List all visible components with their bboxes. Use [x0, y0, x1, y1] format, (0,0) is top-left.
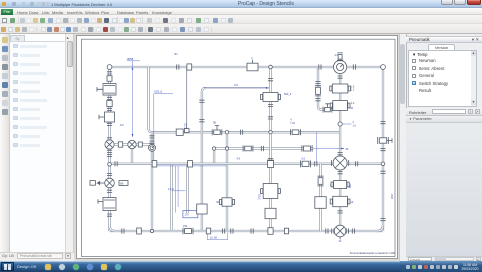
flange F7 [106, 190, 111, 192]
valve K17 [318, 178, 323, 185]
note line 3.0 [204, 87, 268, 89]
flange F16 [267, 79, 272, 81]
svg-text:10 1/8: 10 1/8 [210, 237, 218, 240]
flange F28 [380, 171, 385, 173]
valve K14 [324, 107, 330, 111]
svg-text:5.6: 5.6 [301, 158, 305, 161]
tee ball T5 [225, 147, 228, 150]
svg-text:+B: +B [350, 107, 353, 110]
tee T8 [150, 229, 153, 232]
valve K3 [247, 63, 258, 71]
valve K15 [196, 204, 206, 214]
valve K16 [222, 198, 232, 206]
union U6 [152, 161, 157, 167]
flange F19 [337, 76, 342, 78]
svg-text:2702: 2702 [258, 193, 261, 199]
union U11 [284, 228, 288, 234]
valve K8 [302, 161, 309, 166]
flange F4 [106, 123, 111, 125]
valve K2 handle [99, 115, 105, 119]
pipe riser V13 with elbow [318, 67, 333, 110]
flange F24 [315, 99, 320, 101]
tee ball T6 [268, 131, 271, 134]
flange F34 [352, 228, 354, 233]
vent K12 [338, 55, 342, 60]
svg-text:2007: 2007 [391, 193, 394, 199]
valve K4 [213, 130, 219, 134]
svg-text:4.6: 4.6 [351, 102, 355, 105]
pipe middle header H3 [152, 131, 340, 133]
tee fitting T9 [184, 129, 189, 133]
flange F5 [106, 154, 111, 156]
svg-text:9.9: 9.9 [120, 124, 124, 127]
union U12 [187, 161, 192, 167]
tee ball T7 [381, 162, 385, 166]
valve KD [332, 196, 347, 206]
pipe riser V15 [319, 164, 321, 231]
svg-text:10: 10 [338, 240, 341, 243]
pipe gauge column V14 [338, 60, 340, 231]
flange F12 [240, 130, 242, 135]
svg-text:10: 10 [350, 201, 353, 204]
elbow E3 [380, 65, 385, 70]
pipe main header H6 [109, 163, 383, 165]
valve K11 [265, 208, 276, 218]
svg-text:2.3=1: 2.3=1 [168, 189, 175, 191]
pipe riser V6 [170, 164, 172, 231]
tee ball T3 [225, 131, 228, 134]
valve K9 [263, 93, 278, 102]
pipe riser V7 [186, 164, 188, 213]
union U1a [107, 76, 112, 82]
svg-text:U02_0: U02_0 [154, 90, 163, 94]
svg-text:Kommunikationsplan (erweitert): Kommunikationsplan (erweitert) 1:100 [349, 251, 395, 255]
pump P2 [127, 140, 135, 148]
valve K1 body [103, 84, 116, 96]
flange F18 [267, 158, 272, 160]
svg-text:9B: 9B [213, 122, 216, 125]
union U3 [118, 142, 122, 147]
valve KA [332, 84, 348, 93]
svg-text:1.2: 1.2 [351, 88, 355, 91]
svg-text:4.5: 4.5 [236, 158, 240, 161]
pipe long riser V8 [201, 88, 205, 231]
valve K5 [292, 130, 299, 135]
flange F33 [325, 228, 327, 233]
svg-text:3.0: 3.0 [234, 83, 238, 87]
pipe bottom header H7 [109, 230, 383, 232]
dim 10 1/8 [207, 233, 227, 241]
elbow E1 [107, 65, 112, 70]
tee ball T2 [268, 65, 272, 69]
tee ball T1 [107, 163, 111, 167]
blue tag box [182, 211, 197, 218]
svg-text:B4: B4 [174, 53, 178, 56]
svg-text:603_2: 603_2 [284, 92, 292, 96]
strainer S1 [103, 198, 116, 211]
svg-text:02: 02 [292, 122, 295, 125]
valve K10 [263, 184, 278, 199]
svg-text:170: 170 [184, 214, 189, 217]
gauge G1 [337, 60, 342, 63]
blue drop U02 [152, 94, 154, 166]
blue line to valve 90 [313, 148, 344, 150]
signal line V-thin [185, 68, 187, 130]
union U5 [176, 129, 183, 135]
flange F14 [314, 161, 316, 166]
flange F23 [315, 81, 320, 83]
valve K18 [314, 197, 325, 209]
blue drop mid [315, 132, 317, 162]
pipe right riser V16 [381, 67, 383, 231]
flange F15 [355, 161, 357, 166]
valve K21 [184, 229, 191, 234]
flange F35 [115, 161, 117, 166]
flange F29 [380, 219, 385, 221]
svg-text:NS2: NS2 [350, 183, 352, 188]
pipe riser V3 with elbow [148, 67, 152, 132]
flange F10 [318, 64, 320, 69]
pump P4 [334, 225, 346, 237]
pipe riser V11 [269, 67, 271, 231]
elbow E4 [212, 147, 215, 150]
svg-text:3658: 3658 [127, 57, 134, 61]
valve KB [332, 101, 347, 111]
valve K6 [244, 146, 251, 151]
flange F26 [380, 122, 385, 124]
valve K13 [315, 87, 320, 94]
flange F8 [106, 214, 111, 216]
blue riser pair [174, 166, 176, 213]
flange F21 [337, 172, 342, 174]
pipe stub V5 [130, 149, 132, 165]
flange F22 [337, 211, 342, 213]
flange F25 [199, 100, 204, 102]
elbow E2 [109, 226, 115, 232]
svg-text:2: 2 [251, 57, 253, 60]
dim 2.3-1 [171, 190, 185, 192]
flange F31 [222, 228, 224, 233]
pipe top header H1 [109, 66, 383, 68]
flange F1 [106, 72, 111, 74]
instrument I1 [97, 182, 104, 185]
pipe riser V4 [150, 132, 152, 231]
valve X1 [104, 178, 114, 188]
flange F11 [353, 64, 355, 69]
svg-text:159: 159 [183, 225, 188, 228]
union U10 [206, 228, 210, 234]
flange F3 [106, 108, 111, 110]
union U4 [138, 142, 142, 147]
flange F20 [337, 153, 342, 155]
flange F2 [106, 97, 111, 99]
union U2 [186, 64, 191, 70]
svg-text:90: 90 [345, 148, 348, 151]
flange F30 [121, 228, 123, 233]
valve K2 body [104, 112, 114, 122]
flange F27 [380, 149, 385, 151]
pipe riser V10 [225, 132, 227, 231]
tee ball T4 [338, 122, 342, 126]
pipe header H5 [214, 147, 313, 149]
flange F17 [267, 104, 272, 106]
pump PX [333, 156, 347, 170]
union U9 [136, 228, 141, 234]
tag B6 [119, 181, 128, 186]
valve K19 [379, 138, 386, 143]
svg-text:1.6: 1.6 [352, 124, 356, 127]
flange F9 [176, 64, 178, 69]
dim line 3658 [126, 61, 140, 137]
cross U7 [267, 160, 273, 167]
drawing frame [81, 39, 395, 256]
union U1b [106, 101, 111, 107]
cross U8 [267, 228, 272, 235]
pipe left riser V1 [108, 67, 110, 231]
blue under-header [153, 165, 226, 167]
valve K7 [303, 146, 310, 151]
flange F32 [251, 228, 253, 233]
flange F13 [261, 146, 263, 151]
flange F6 [106, 173, 111, 175]
elbow E5 [377, 225, 383, 231]
valve K1 handle [97, 87, 103, 91]
valve KC [333, 181, 346, 189]
pump P3 [148, 144, 155, 151]
svg-text:B6: B6 [120, 181, 124, 185]
pipe circles row [109, 143, 152, 145]
pump P1 [104, 140, 113, 149]
pipe stub V9 [212, 149, 214, 165]
